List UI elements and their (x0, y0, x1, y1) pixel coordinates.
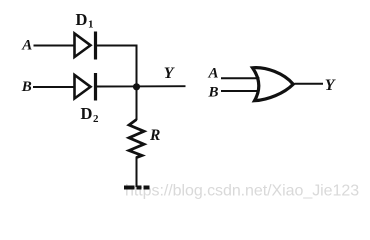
svg-text:https://blog.csdn.net/Xiao_Jie: https://blog.csdn.net/Xiao_Jie123 (125, 183, 359, 200)
svg-text:Y: Y (325, 77, 336, 94)
svg-text:Y: Y (164, 65, 175, 82)
wire resistor to ground (136, 157, 138, 188)
wire B input (33, 86, 74, 88)
OR gate U1 (253, 68, 294, 101)
diode D1 (75, 32, 96, 60)
wire A input (34, 45, 75, 47)
ground (124, 186, 150, 190)
svg-text:D: D (76, 10, 88, 29)
junction dot (133, 83, 140, 90)
wire gate input B (221, 90, 260, 92)
svg-text:A: A (21, 38, 32, 54)
wire gate output (295, 83, 324, 85)
svg-text:B: B (208, 85, 219, 101)
wire gate input A (221, 77, 260, 79)
svg-text:A: A (208, 66, 219, 82)
svg-text:D: D (81, 104, 93, 123)
wire D2 output through junction to Y (97, 85, 186, 87)
svg-text:2: 2 (93, 113, 99, 125)
svg-text:B: B (21, 79, 32, 95)
wire vertical from D1 corner down to resistor (136, 45, 138, 121)
diode D2 (75, 73, 96, 101)
wire D1 output to corner (97, 45, 137, 47)
resistor R (129, 120, 144, 158)
svg-text:R: R (149, 127, 160, 144)
svg-text:1: 1 (88, 19, 94, 31)
